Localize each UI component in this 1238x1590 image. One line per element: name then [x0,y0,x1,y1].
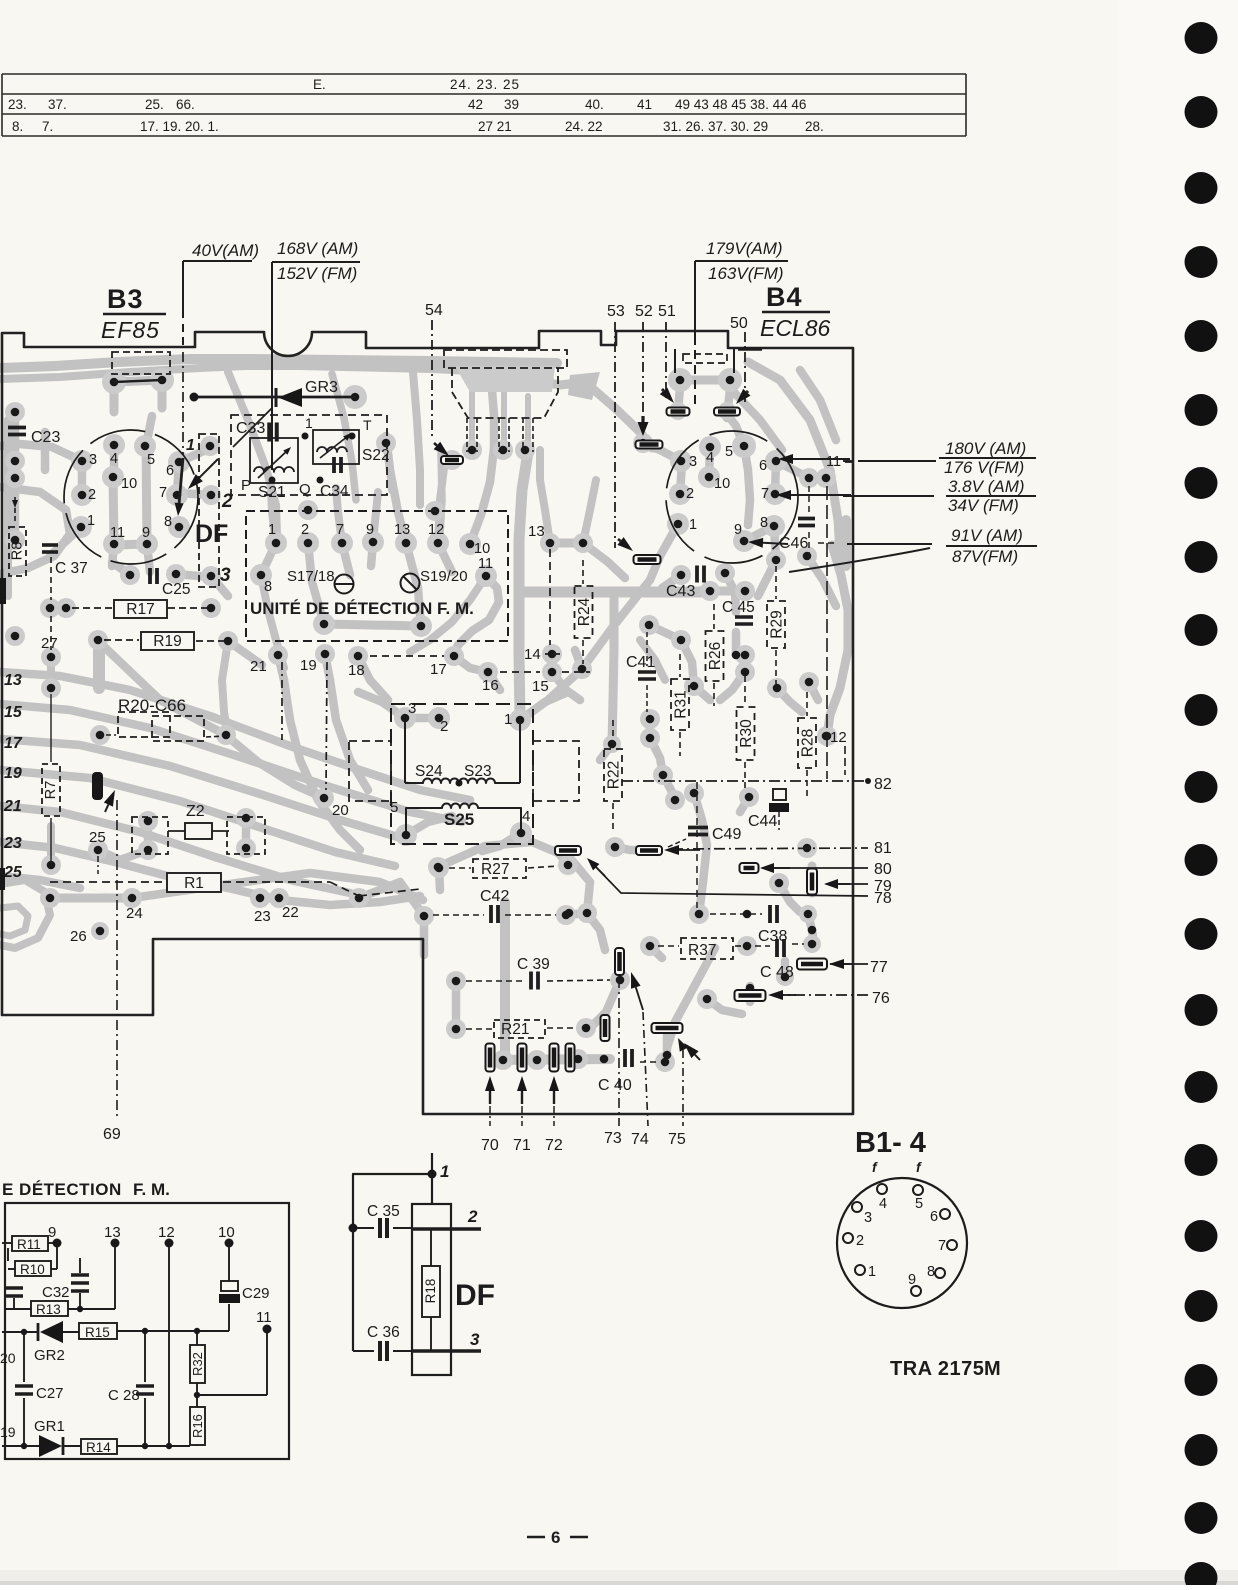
svg-text:F. M.: F. M. [133,1180,170,1199]
svg-text:2: 2 [440,718,448,735]
svg-text:B4: B4 [766,282,803,312]
svg-text:C44: C44 [748,813,777,830]
svg-text:10: 10 [121,476,137,492]
svg-text:3: 3 [470,1330,480,1349]
svg-text:R27: R27 [481,861,509,878]
svg-text:DF: DF [195,520,228,548]
svg-text:R30: R30 [738,719,755,748]
svg-text:52: 52 [635,303,653,320]
svg-text:8: 8 [164,514,172,530]
svg-text:9: 9 [48,1224,56,1241]
svg-text:24: 24 [126,905,143,922]
svg-text:168V (AM): 168V (AM) [277,239,358,258]
svg-text:53: 53 [607,303,625,320]
svg-text:R8: R8 [10,542,26,561]
svg-text:78: 78 [874,890,892,907]
svg-text:176 V(FM): 176 V(FM) [944,458,1024,477]
svg-text:C27: C27 [36,1385,64,1402]
svg-text:5: 5 [390,799,398,816]
svg-text:S25: S25 [444,810,474,829]
svg-text:4: 4 [879,1196,887,1212]
svg-text:1: 1 [868,1264,876,1280]
svg-text:5: 5 [725,444,733,460]
svg-text:25: 25 [89,829,106,846]
svg-text:77: 77 [870,959,888,976]
svg-text:C 37: C 37 [55,560,88,577]
svg-text:S19/20: S19/20 [420,568,468,585]
svg-text:R19: R19 [153,633,181,650]
svg-text:C 28: C 28 [108,1387,140,1404]
svg-text:4: 4 [522,808,530,825]
svg-text:31. 26. 37. 30. 29: 31. 26. 37. 30. 29 [663,119,768,134]
svg-text:UNITÉ DE DÉTECTION F. M.: UNITÉ DE DÉTECTION F. M. [250,599,474,618]
svg-text:41: 41 [637,97,652,112]
svg-text:50: 50 [730,315,748,332]
svg-text:40.: 40. [585,97,604,112]
svg-text:C 40: C 40 [598,1077,632,1094]
svg-text:Z2: Z2 [186,803,205,820]
svg-text:26: 26 [70,928,87,945]
svg-text:C46: C46 [779,535,808,552]
svg-text:C 36: C 36 [367,1324,400,1341]
svg-text:3: 3 [864,1210,872,1226]
svg-text:37.: 37. [48,97,67,112]
svg-text:12: 12 [158,1224,175,1241]
svg-text:R32: R32 [190,1352,205,1376]
svg-text:2: 2 [856,1233,864,1249]
svg-text:R15: R15 [85,1325,110,1340]
svg-text:8: 8 [927,1264,935,1280]
svg-text:3: 3 [408,700,416,717]
svg-text:71: 71 [513,1137,531,1154]
svg-text:20: 20 [332,802,349,819]
svg-text:12: 12 [830,729,847,746]
svg-text:180V (AM): 180V (AM) [945,439,1026,458]
svg-text:C41: C41 [626,654,655,671]
svg-text:4: 4 [110,451,118,467]
svg-text:S21: S21 [258,484,286,501]
svg-text:76: 76 [872,990,890,1007]
svg-text:27 21: 27 21 [478,119,512,134]
svg-text:42: 42 [468,97,483,112]
svg-text:R21: R21 [501,1021,529,1038]
svg-text:R31: R31 [673,690,690,718]
svg-text:91V (AM): 91V (AM) [951,526,1023,545]
svg-text:11: 11 [110,525,125,541]
svg-text:9: 9 [734,522,742,538]
svg-text:25.: 25. [145,97,164,112]
svg-text:R24: R24 [576,597,593,626]
svg-text:9: 9 [366,522,374,538]
svg-text:18: 18 [348,662,365,679]
svg-text:R10: R10 [20,1262,45,1277]
svg-text:1: 1 [87,513,95,529]
svg-text:17: 17 [4,735,23,752]
svg-text:5: 5 [915,1196,923,1212]
svg-text:34V (FM): 34V (FM) [948,496,1019,515]
svg-text:R37: R37 [688,942,716,959]
svg-text:R11: R11 [17,1237,41,1252]
svg-text:5: 5 [147,452,155,468]
svg-text:23.: 23. [8,97,27,112]
svg-text:75: 75 [668,1131,686,1148]
svg-text:17: 17 [430,661,447,678]
svg-text:49 43 48 45 38. 44 46: 49 43 48 45 38. 44 46 [675,97,806,112]
svg-text:6: 6 [759,458,767,474]
svg-text:E DÉTECTION: E DÉTECTION [2,1180,122,1199]
svg-text:80: 80 [874,861,892,878]
svg-text:R17: R17 [126,601,154,618]
svg-text:11: 11 [256,1309,272,1326]
svg-text:C 48: C 48 [760,964,794,981]
svg-text:40V(AM): 40V(AM) [192,241,259,260]
svg-text:72: 72 [545,1137,563,1154]
svg-text:6: 6 [166,463,174,479]
svg-text:ECL86: ECL86 [760,315,831,341]
svg-text:54: 54 [425,302,443,319]
svg-text:S24: S24 [415,763,443,780]
svg-text:R22: R22 [606,761,623,789]
svg-text:10: 10 [474,541,490,557]
svg-text:22: 22 [282,904,299,921]
svg-text:C34: C34 [320,483,349,500]
svg-text:3.8V (AM): 3.8V (AM) [948,477,1025,496]
svg-text:81: 81 [874,840,892,857]
svg-text:19: 19 [0,1424,16,1440]
svg-text:13: 13 [4,672,22,689]
svg-text:74: 74 [631,1131,649,1148]
svg-text:87V(FM): 87V(FM) [952,547,1018,566]
svg-text:82: 82 [874,776,892,793]
svg-text:2: 2 [301,522,309,538]
svg-text:T: T [363,417,372,433]
svg-text:S17/18: S17/18 [287,568,335,585]
svg-text:24. 23. 25: 24. 23. 25 [450,77,520,92]
svg-text:GR1: GR1 [34,1418,65,1435]
svg-text:16: 16 [482,677,499,694]
svg-text:C49: C49 [712,826,741,843]
svg-text:1: 1 [268,522,276,538]
svg-text:DF: DF [455,1279,495,1312]
svg-text:27: 27 [41,635,58,652]
svg-text:8.: 8. [12,119,23,134]
svg-text:C29: C29 [242,1285,270,1302]
svg-text:2: 2 [467,1207,478,1226]
svg-text:GR3: GR3 [305,379,338,396]
svg-text:R28: R28 [800,729,817,757]
svg-text:1: 1 [440,1162,449,1181]
svg-text:B1- 4: B1- 4 [855,1127,926,1159]
svg-text:3: 3 [220,565,231,586]
svg-text:Q: Q [299,481,311,498]
svg-text:M: M [984,1358,1001,1380]
svg-text:13: 13 [394,522,410,538]
svg-text:C 45: C 45 [722,599,755,616]
svg-text:15: 15 [532,678,549,695]
svg-text:2: 2 [88,487,96,503]
svg-text:1: 1 [504,711,512,728]
svg-text:7: 7 [159,485,167,501]
svg-text:152V (FM): 152V (FM) [277,264,357,283]
svg-text:14: 14 [524,646,541,663]
svg-text:11: 11 [826,454,841,470]
svg-text:28.: 28. [805,119,824,134]
svg-text:13: 13 [528,523,545,540]
svg-text:15: 15 [4,704,23,721]
svg-text:17. 19. 20. 1.: 17. 19. 20. 1. [140,119,219,134]
svg-text:10: 10 [218,1224,235,1241]
svg-text:6: 6 [930,1209,938,1225]
svg-text:6: 6 [551,1528,560,1547]
svg-text:P: P [241,477,251,494]
svg-text:4: 4 [706,450,714,466]
svg-text:E.: E. [313,77,326,92]
svg-text:69: 69 [103,1126,121,1143]
svg-text:163V(FM): 163V(FM) [708,264,784,283]
svg-text:R1: R1 [184,875,204,892]
svg-text:C42: C42 [480,888,509,905]
svg-text:R26: R26 [707,642,724,670]
svg-text:C 35: C 35 [367,1203,400,1220]
svg-text:19: 19 [300,657,317,674]
svg-text:51: 51 [658,303,676,320]
svg-text:R18: R18 [423,1279,438,1304]
svg-text:1: 1 [305,415,313,431]
svg-text:2: 2 [221,491,233,512]
svg-text:11: 11 [478,556,493,572]
svg-text:2: 2 [686,486,694,502]
svg-text:24. 22: 24. 22 [565,119,603,134]
svg-text:C25: C25 [162,581,190,598]
svg-text:3: 3 [689,454,697,470]
svg-text:73: 73 [604,1130,622,1147]
svg-text:S23: S23 [464,763,492,780]
svg-text:3: 3 [89,452,97,468]
svg-text:C32: C32 [42,1284,70,1301]
svg-text:7: 7 [761,486,769,502]
svg-text:1: 1 [689,517,697,533]
svg-text:7: 7 [938,1238,946,1254]
svg-text:GR2: GR2 [34,1347,65,1364]
svg-text:9: 9 [908,1272,916,1288]
svg-text:19: 19 [4,765,22,782]
svg-text:23: 23 [254,908,271,925]
svg-text:8: 8 [264,579,272,595]
svg-text:R7: R7 [43,781,59,800]
svg-text:9: 9 [142,525,150,541]
svg-text:1: 1 [186,437,195,454]
svg-text:S22: S22 [362,447,390,464]
svg-text:R29: R29 [769,610,786,638]
svg-text:C 39: C 39 [517,956,550,973]
svg-text:EF85: EF85 [101,317,160,343]
svg-text:R13: R13 [36,1302,61,1317]
svg-text:10: 10 [714,476,730,492]
svg-text:179V(AM): 179V(AM) [706,239,783,258]
svg-text:21: 21 [3,798,22,815]
svg-text:B3: B3 [107,284,144,314]
svg-text:C43: C43 [666,583,695,600]
svg-text:12: 12 [428,522,444,538]
svg-text:21: 21 [250,658,267,675]
svg-text:TRA 2175: TRA 2175 [890,1358,984,1380]
svg-text:66.: 66. [176,97,195,112]
svg-text:70: 70 [481,1137,499,1154]
svg-text:C23: C23 [31,429,60,446]
svg-text:39: 39 [504,97,519,112]
svg-text:R16: R16 [190,1414,205,1438]
svg-text:25: 25 [3,864,23,881]
svg-text:13: 13 [104,1224,121,1241]
svg-text:7: 7 [336,522,344,538]
svg-text:8: 8 [760,515,768,531]
svg-text:20: 20 [0,1350,16,1366]
svg-text:7.: 7. [42,119,53,134]
svg-text:23: 23 [3,835,22,852]
svg-text:R14: R14 [86,1440,111,1455]
